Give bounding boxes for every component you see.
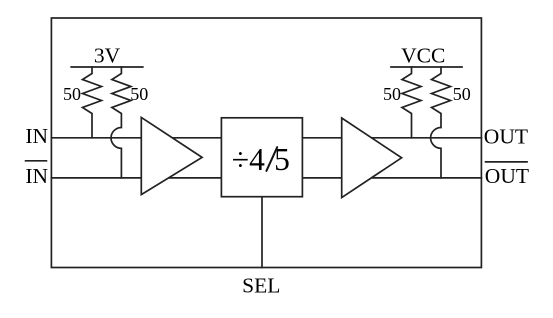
svg-text:OUT: OUT xyxy=(485,164,529,188)
svg-text:50: 50 xyxy=(383,84,401,104)
svg-text:50: 50 xyxy=(453,84,471,104)
svg-text:OUT: OUT xyxy=(484,124,528,148)
svg-text:3V: 3V xyxy=(94,44,121,68)
svg-text:SEL: SEL xyxy=(242,274,280,298)
svg-text:IN: IN xyxy=(25,124,48,148)
svg-text:VCC: VCC xyxy=(401,44,445,68)
svg-text:IN: IN xyxy=(25,164,48,188)
svg-text:50: 50 xyxy=(63,84,81,104)
svg-text:50: 50 xyxy=(130,84,148,104)
svg-text:÷4: ÷4 xyxy=(232,142,265,177)
